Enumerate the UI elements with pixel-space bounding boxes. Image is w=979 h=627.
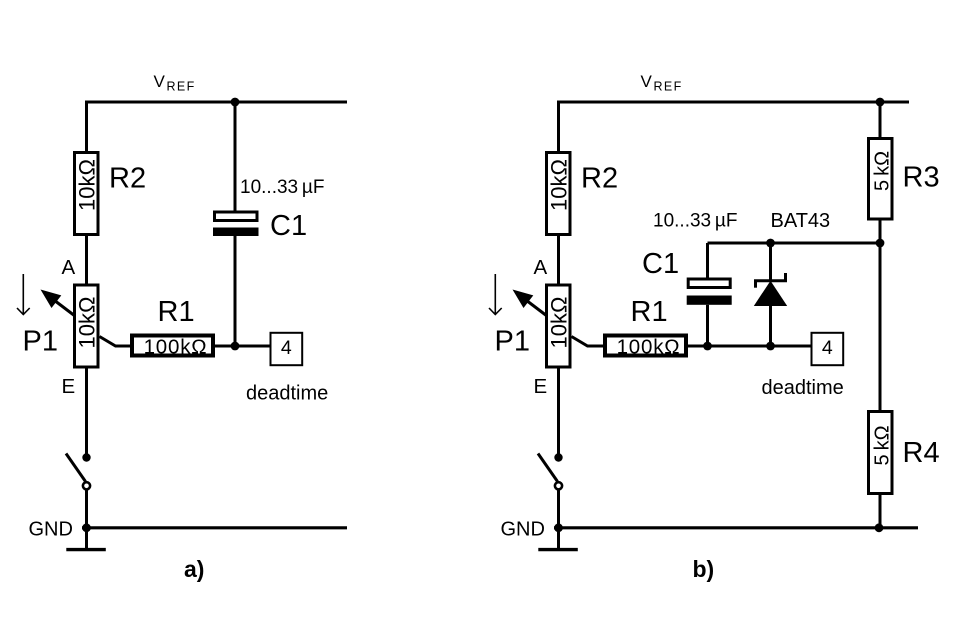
svg-text:R1: R1 — [158, 296, 195, 328]
svg-text:R2: R2 — [581, 163, 618, 195]
svg-text:10kΩ: 10kΩ — [74, 159, 99, 211]
svg-text:P1: P1 — [495, 326, 530, 358]
svg-text:E: E — [534, 375, 548, 398]
svg-text:10kΩ: 10kΩ — [546, 297, 571, 349]
svg-text:C1: C1 — [270, 210, 307, 242]
svg-text:R3: R3 — [903, 162, 940, 194]
svg-text:5 kΩ: 5 kΩ — [871, 425, 893, 465]
svg-text:V: V — [154, 72, 166, 91]
svg-text:E: E — [62, 375, 76, 398]
svg-text:10...33 µF: 10...33 µF — [240, 177, 324, 198]
svg-text:BAT43: BAT43 — [771, 210, 831, 232]
svg-text:REF: REF — [167, 80, 196, 94]
svg-text:deadtime: deadtime — [762, 377, 844, 399]
svg-text:A: A — [534, 256, 548, 279]
svg-text:V: V — [641, 72, 653, 91]
svg-text:A: A — [62, 256, 76, 279]
svg-text:R1: R1 — [631, 296, 668, 328]
svg-text:GND: GND — [501, 519, 545, 541]
svg-text:10...33 µF: 10...33 µF — [653, 211, 737, 232]
svg-text:R2: R2 — [109, 163, 146, 195]
svg-text:P1: P1 — [23, 326, 58, 358]
svg-text:5 kΩ: 5 kΩ — [871, 151, 893, 191]
svg-text:REF: REF — [654, 80, 683, 94]
svg-text:deadtime: deadtime — [246, 383, 328, 405]
svg-text:GND: GND — [29, 519, 73, 541]
svg-text:R4: R4 — [903, 437, 940, 469]
svg-text:100kΩ: 100kΩ — [144, 335, 208, 358]
svg-text:b): b) — [693, 556, 715, 582]
svg-text:10kΩ: 10kΩ — [74, 297, 99, 349]
svg-text:4: 4 — [281, 337, 292, 359]
svg-text:100kΩ: 100kΩ — [617, 335, 681, 358]
svg-text:C1: C1 — [642, 248, 679, 280]
svg-text:4: 4 — [822, 337, 833, 359]
svg-text:10kΩ: 10kΩ — [546, 159, 571, 211]
svg-text:a): a) — [184, 556, 204, 582]
